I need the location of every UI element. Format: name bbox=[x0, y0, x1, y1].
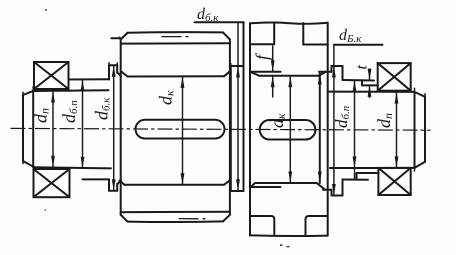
wire left journal top surface bbox=[33, 89, 108, 92]
label underline d_b.k right bbox=[334, 44, 383, 46]
left collar bottom surface bbox=[109, 190, 117, 192]
center collar top surface bbox=[231, 65, 244, 67]
right collar left face bottom bbox=[331, 190, 333, 196]
right end top chamfer bbox=[415, 92, 426, 97]
arrow d_b.k right down bbox=[332, 184, 336, 196]
arrow d_k left down bbox=[181, 173, 185, 185]
left collar right face bottom bbox=[116, 184, 118, 191]
arrow d_b.p left down bbox=[81, 157, 85, 169]
gear1 rim line top bbox=[121, 42, 230, 44]
gear1 pitch dash bottom bbox=[179, 218, 205, 220]
arrowheads bbox=[51, 60, 398, 195]
gear1 bottom edge bbox=[128, 220, 224, 223]
label d_b.p left bbox=[59, 100, 80, 123]
right shaft end face bbox=[424, 97, 426, 162]
gear1 top edge bbox=[128, 31, 224, 34]
arrow d_b.k left down bbox=[112, 179, 116, 191]
left collar left face bottom bbox=[108, 179, 110, 190]
left chamfer edge line bbox=[32, 91, 34, 168]
gear2 right face bbox=[327, 23, 329, 236]
left collar left face top bbox=[108, 65, 110, 79]
arrow seat-end down bbox=[318, 172, 322, 184]
connector chamfer bottom bbox=[117, 181, 121, 184]
d_b.p bottom surface bbox=[83, 178, 110, 180]
left end bottom chamfer bbox=[23, 161, 34, 167]
center collar left face bbox=[230, 66, 232, 191]
gear1 seat chamfer bottom-right bbox=[224, 181, 230, 185]
svg-text:dБ.к: dБ.к bbox=[339, 27, 362, 45]
right journal top surface bbox=[328, 91, 415, 93]
gear1 right face bbox=[229, 40, 231, 215]
keyway gear2 bbox=[260, 120, 316, 140]
gear1 seat bottom line bbox=[125, 184, 224, 186]
gear2 bottom-left shoulder with fillet bbox=[250, 216, 274, 235]
svg-text:dб.п: dб.п bbox=[59, 100, 80, 123]
right end chamfer edge line bbox=[414, 92, 416, 168]
arrow d_p left up bbox=[51, 91, 55, 103]
keyway gear1 bbox=[136, 120, 225, 139]
arrow d_b.p left up bbox=[81, 80, 85, 92]
label underline d_b.k top center bbox=[195, 21, 244, 23]
gear1 left face bbox=[120, 40, 122, 215]
label d_b.k left bbox=[92, 97, 113, 120]
arrow seat-end up bbox=[318, 73, 322, 85]
label d_k right bbox=[267, 113, 288, 128]
left end top chamfer bbox=[23, 91, 34, 95]
gear1 top-left chamfer bbox=[121, 33, 128, 40]
bearing left lower square bbox=[34, 169, 70, 197]
arrow d_p right down bbox=[395, 156, 399, 168]
right sleeve top surface 1 bbox=[343, 79, 375, 82]
svg-text:dб.к: dб.к bbox=[197, 6, 219, 24]
label f bbox=[252, 52, 272, 60]
right collar right face bottom bbox=[342, 180, 344, 196]
right journal bottom surface bbox=[330, 167, 415, 169]
right sleeve top surface 2 bbox=[362, 84, 378, 86]
arrow d_k left up bbox=[181, 76, 185, 88]
scan specks bbox=[45, 9, 290, 247]
gear2 seat end vertical bbox=[319, 73, 321, 183]
svg-text:dп: dп bbox=[374, 113, 395, 128]
arrow d_k right up bbox=[288, 76, 292, 88]
wire left journal bottom surface bbox=[33, 167, 111, 168]
gear1 seat top line bbox=[128, 75, 225, 77]
svg-text:dб.п: dб.п bbox=[332, 105, 352, 128]
gear2 top-left shoulder bbox=[250, 43, 274, 45]
arrow d_b.k left up bbox=[112, 65, 116, 77]
svg-text:t: t bbox=[354, 65, 371, 70]
gear2 seat chamfer top-right bbox=[319, 72, 327, 76]
right sleeve bottom surface 1 bbox=[343, 179, 369, 181]
svg-text:f: f bbox=[252, 52, 272, 60]
label d_p right bbox=[374, 113, 395, 128]
hand-drawn overshoots bbox=[23, 37, 425, 171]
arrow d_k right down bbox=[288, 172, 292, 184]
gear2 bottom-right shoulder with fillet bbox=[306, 216, 328, 236]
right collar right face top bbox=[342, 66, 344, 80]
gear1 seat chamfer top-right bbox=[224, 72, 230, 77]
left collar right face top bbox=[116, 65, 118, 72]
gear2 shoulder line bottom-left bbox=[252, 186, 281, 188]
right sleeve jog vertical bottom bbox=[356, 173, 358, 180]
arrow t up bbox=[368, 85, 372, 97]
arrow d_p right up bbox=[395, 92, 399, 104]
arrow d_b.p right up bbox=[353, 80, 357, 92]
gear2 seat bottom line bbox=[255, 182, 317, 184]
bearing left upper square bbox=[34, 62, 69, 89]
centerline bbox=[11, 128, 430, 130]
arrow f up bbox=[271, 76, 275, 88]
gear1 rim line bottom bbox=[121, 211, 230, 213]
gear2 shoulder line bottom-right bbox=[323, 189, 332, 191]
label d_b.p right bbox=[332, 105, 352, 128]
right collar left face top bbox=[331, 66, 333, 72]
right sleeve bottom surface 2 bbox=[357, 172, 379, 174]
step to d_b.p top bbox=[68, 80, 70, 92]
gear2 top-right shoulder vertical bbox=[302, 23, 304, 45]
right collar bottom surface bbox=[332, 195, 343, 197]
right end bottom chamfer bbox=[415, 162, 426, 168]
svg-text:dб.к: dб.к bbox=[92, 97, 113, 120]
gear2 left face bbox=[249, 23, 251, 235]
label d_p left bbox=[31, 108, 52, 123]
gear2 top edge bbox=[250, 23, 328, 24]
right collar top surface bbox=[332, 65, 343, 67]
gear1 bottom-right chamfer bbox=[223, 215, 230, 222]
gear2 top-right shoulder bbox=[303, 44, 327, 46]
gear1 seat chamfer bottom-left bbox=[120, 181, 125, 185]
bearing right lower square bbox=[378, 168, 410, 195]
gear2 seat chamfer top-left bbox=[252, 72, 260, 76]
center collar bottom surface bbox=[231, 190, 244, 192]
gear2 seat top line bbox=[259, 75, 318, 77]
dimension line d_p left bbox=[53, 22, 397, 195]
gear2 top-left shoulder vertical bbox=[273, 23, 275, 44]
gear2 seat chamfer bottom-left bbox=[251, 183, 256, 187]
left collar top surface bbox=[109, 64, 117, 66]
gear2 shoulder line top-left (f upper line) bbox=[252, 71, 281, 73]
arrow d_b.p right down bbox=[353, 157, 357, 169]
svg-text:dк: dк bbox=[156, 90, 177, 105]
gear1 seat chamfer top-left bbox=[122, 72, 128, 77]
stub line left of gear1 face bbox=[111, 37, 120, 39]
d_b.p top surface bbox=[69, 78, 110, 80]
arrow d_b.k right up bbox=[332, 66, 336, 78]
gear2 bottom edge bbox=[250, 234, 328, 237]
connector chamfer top bbox=[117, 73, 121, 77]
arrow d_b.k center up bbox=[236, 66, 240, 78]
right sleeve jog vertical top bbox=[361, 80, 363, 85]
label d_k left bbox=[156, 90, 177, 105]
gear1 top-right chamfer bbox=[223, 32, 230, 39]
label t bbox=[354, 65, 371, 70]
arrow d_p left down bbox=[51, 156, 55, 168]
arrow t down bbox=[368, 69, 372, 81]
arrow d_b.k center down bbox=[236, 179, 240, 191]
svg-text:dк: dк bbox=[267, 113, 288, 128]
gear1 bottom-left chamfer bbox=[121, 215, 128, 222]
gear1 pitch dash top bbox=[162, 36, 188, 38]
center collar right face extended to label line bbox=[243, 22, 245, 191]
gear2 shoulder line top-right bbox=[319, 71, 332, 73]
arrow f down bbox=[271, 60, 275, 71]
bearing right upper square bbox=[378, 63, 411, 91]
left shaft end face bbox=[22, 95, 24, 161]
gear2 seat chamfer bottom-right bbox=[317, 183, 325, 190]
